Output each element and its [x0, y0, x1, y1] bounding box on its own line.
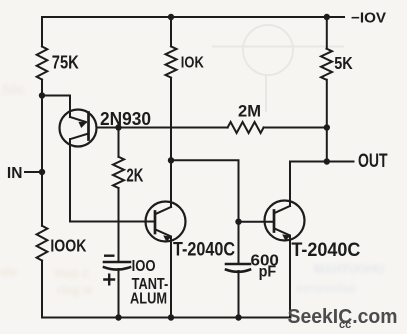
wire: C2 branch down [238, 222, 240, 264]
junction dot node A [115, 124, 121, 130]
junction dot OUT node [324, 158, 330, 164]
wire: 5K top lead [326, 17, 328, 49]
svg-text:step c: step c [54, 266, 89, 280]
wire: OUT lead [327, 161, 354, 163]
wire: 5K down to OUT node [326, 80, 328, 162]
svg-text:IN: IN [7, 165, 23, 182]
resistor 2K [113, 157, 124, 188]
svg-text:pF: pF [259, 263, 277, 280]
wire: 10K top lead [170, 17, 172, 46]
svg-text:ring w: ring w [57, 283, 93, 297]
junction dot Q3 base [235, 219, 241, 225]
junction dot top rail 10K [168, 14, 174, 20]
resistor 2M [228, 122, 264, 133]
arrowhead Q2 emitter (NPN, outward) [163, 235, 171, 241]
junction dot rail C1 [115, 314, 121, 320]
svg-text:IOK: IOK [181, 55, 204, 72]
wire: node B horizontal to C2 branch [171, 160, 239, 221]
wire: Q2 emitter to bottom rail [170, 237, 172, 318]
junction dot node B [168, 157, 174, 163]
wire: IN lead [25, 171, 42, 173]
wire: 75K junction to Q1 emitter [42, 96, 70, 118]
svg-text:OUT: OUT [358, 151, 388, 172]
wire: top supply rail [42, 16, 344, 18]
wire: Q1 base to node A [97, 127, 119, 129]
junction dot top rail 5K [324, 14, 330, 20]
arrowhead Q1 emitter (PNP, into base) [78, 122, 87, 128]
wire: Q3 base [239, 221, 275, 223]
svg-text:eersnoilsa: eersnoilsa [296, 281, 356, 295]
resistor 5K [321, 49, 332, 80]
capacitor C1 100 TANT-ALUM [104, 261, 130, 264]
junction dot rail Q2 emitter [168, 314, 174, 320]
svg-text:75K: 75K [52, 53, 79, 73]
junction dot rail C2 [235, 314, 241, 320]
junction dot IN [39, 169, 45, 175]
junction dot 75K bottom [39, 92, 45, 98]
svg-text:−IOV: −IOV [351, 11, 386, 27]
junction dot 2M right [324, 124, 330, 130]
wire: node A down to 2K [118, 128, 120, 157]
polarity minus C1 [104, 254, 115, 256]
wire: 10K down to Q2 collector [170, 78, 172, 207]
wire: C1 to bottom rail [118, 269, 120, 318]
faint bleed-through ghost transistor [212, 25, 344, 112]
svg-text:IOOK: IOOK [50, 235, 86, 255]
resistor 10K [166, 46, 177, 77]
capacitor C2 600pF [226, 263, 250, 266]
resistor 100K [37, 226, 48, 261]
svg-text:ale: ale [0, 265, 17, 279]
transistor Q3 T-2040C [265, 201, 305, 241]
svg-text:cc: cc [339, 319, 351, 331]
svg-text:2M: 2M [238, 101, 261, 120]
resistor 75K [37, 47, 48, 80]
wire: C2 to bottom rail [238, 271, 240, 318]
svg-text:S0c: S0c [2, 82, 25, 97]
wire: 2K to capacitor C1 [118, 188, 120, 262]
arrowhead Q3 emitter (NPN, outward) [282, 234, 290, 240]
wire: Q3 collector to OUT node [290, 162, 327, 318]
svg-text:5K: 5K [334, 53, 353, 73]
wire: left vertical top lead [41, 17, 43, 47]
svg-text:T-2040C: T-2040C [173, 240, 235, 261]
svg-text:2N930: 2N930 [100, 109, 151, 129]
transistor Q2 T-2040C [146, 202, 186, 242]
svg-text:T-2040C: T-2040C [291, 240, 360, 261]
polarity plus C1 [103, 274, 115, 286]
svg-text:ALUM: ALUM [130, 290, 167, 307]
svg-text:2K: 2K [126, 164, 143, 185]
transistor Q1 2N930 [60, 110, 97, 147]
wire: 2M to right rail [264, 127, 327, 129]
wire: left vertical bottom lead [41, 261, 43, 318]
wire: left vertical middle [41, 80, 43, 226]
wire: Q1 collector down and to Q2 base [70, 139, 155, 222]
wire: bottom rail [42, 317, 291, 319]
wire: node A to 2M [119, 127, 228, 129]
svg-text:IOO: IOO [132, 258, 156, 275]
svg-text:MAHTUOHU: MAHTUOHU [314, 262, 384, 276]
